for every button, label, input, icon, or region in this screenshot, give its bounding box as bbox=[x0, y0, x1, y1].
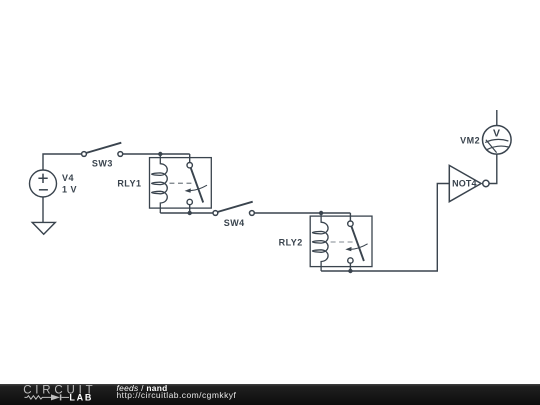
svg-text:SW4: SW4 bbox=[224, 218, 245, 228]
svg-text:SW3: SW3 bbox=[92, 159, 113, 169]
svg-text:RLY1: RLY1 bbox=[117, 178, 141, 188]
svg-text:NOT4: NOT4 bbox=[452, 178, 477, 188]
svg-text:V4: V4 bbox=[62, 173, 74, 183]
svg-text:1 V: 1 V bbox=[62, 185, 77, 195]
svg-text:VM2: VM2 bbox=[460, 136, 480, 146]
svg-text:V: V bbox=[493, 128, 501, 140]
svg-text:LAB: LAB bbox=[69, 393, 93, 403]
svg-text:RLY2: RLY2 bbox=[279, 237, 303, 247]
